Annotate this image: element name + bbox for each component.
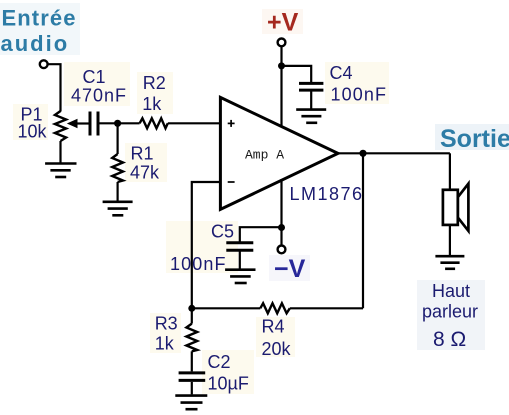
svg-text:C5: C5 xyxy=(211,221,234,241)
svg-text:R3: R3 xyxy=(155,313,178,333)
op-amp - input symbol xyxy=(228,181,235,183)
input terminal J1 xyxy=(40,60,48,68)
capacitor C5 xyxy=(226,243,253,251)
svg-text:100nF: 100nF xyxy=(170,254,227,274)
wire C5 to ground xyxy=(239,252,241,269)
wire P1 bottom to ground xyxy=(59,141,61,163)
potentiometer P1 wiper arrow xyxy=(67,119,89,128)
wire node B down to speaker xyxy=(449,153,451,190)
speaker LS1 xyxy=(443,184,469,231)
wire R3 to C2 xyxy=(191,351,193,371)
potentiometer P1 xyxy=(55,111,66,141)
svg-text:10k: 10k xyxy=(18,122,48,142)
label Entree audio xyxy=(1,6,77,56)
wire node A to R2 xyxy=(118,122,140,124)
wire C2 to ground xyxy=(191,382,193,395)
svg-text:C4: C4 xyxy=(330,63,353,83)
svg-text:20k: 20k xyxy=(262,339,292,359)
svg-text:100nF: 100nF xyxy=(331,85,388,105)
-V terminal xyxy=(278,246,286,254)
node C junction dot xyxy=(188,305,195,312)
resistor R3 xyxy=(186,324,197,352)
svg-text:10µF: 10µF xyxy=(208,374,249,394)
capacitor C4 xyxy=(299,83,323,90)
wire op-amp - input to feedback xyxy=(192,182,221,308)
wire C1 to node A xyxy=(100,122,118,124)
svg-text:audio: audio xyxy=(1,31,70,56)
svg-text:parleur: parleur xyxy=(422,302,478,322)
ground (P1) xyxy=(45,164,76,178)
wire +V down to op-amp top xyxy=(280,47,282,128)
resistor R4 xyxy=(260,303,290,313)
wire +V node to C4 xyxy=(282,66,312,82)
+V terminal xyxy=(278,39,286,47)
resistor R1 xyxy=(112,154,123,182)
wire op-amp -V pin down xyxy=(280,179,282,228)
svg-text:R4: R4 xyxy=(262,316,285,336)
svg-text:C2: C2 xyxy=(208,352,231,372)
svg-text:Sortie: Sortie xyxy=(440,125,509,153)
wire node B down to feedback xyxy=(362,153,364,308)
svg-text:8 Ω: 8 Ω xyxy=(433,328,466,351)
node +V junction dot xyxy=(278,62,285,69)
wire C4 to ground xyxy=(310,91,312,109)
ground (C2) xyxy=(175,396,207,410)
op-amp + input symbol xyxy=(228,120,235,127)
svg-text:470nF: 470nF xyxy=(71,86,127,106)
wire R1 to ground xyxy=(116,182,118,201)
wire op-amp output to node B xyxy=(338,152,450,154)
svg-text:Haut: Haut xyxy=(432,281,470,301)
wire feedback horizontal right segment xyxy=(290,307,363,309)
capacitor C1 xyxy=(90,112,98,136)
node A junction dot xyxy=(114,120,121,127)
svg-text:R2: R2 xyxy=(143,73,166,93)
svg-text:R1: R1 xyxy=(131,143,154,163)
ground (C5) xyxy=(225,270,255,283)
svg-text:1k: 1k xyxy=(142,94,162,114)
op-amp U1 triangle xyxy=(220,97,338,209)
ground (C4) xyxy=(296,110,326,123)
wire node A down to R1 xyxy=(116,123,118,154)
ground (R1) xyxy=(103,202,133,216)
wire -V node to C5 xyxy=(240,227,282,241)
wire speaker to ground xyxy=(449,225,451,255)
capacitor C2 xyxy=(179,373,206,381)
svg-text:Amp A: Amp A xyxy=(245,148,284,163)
svg-text:+V: +V xyxy=(267,9,299,37)
svg-text:Entrée: Entrée xyxy=(2,6,77,31)
node B junction dot xyxy=(359,150,366,157)
wire node C down to R3 xyxy=(191,308,193,323)
svg-text:C1: C1 xyxy=(83,67,106,87)
wire R4 to node C xyxy=(192,307,260,309)
svg-text:LM1876: LM1876 xyxy=(290,184,364,204)
svg-text:1k: 1k xyxy=(155,334,175,354)
wire R2 to op-amp + input xyxy=(168,122,221,124)
ground (speaker) xyxy=(435,256,464,269)
resistor R2 xyxy=(140,118,168,128)
wire input to P1 top xyxy=(48,64,61,111)
svg-text:47k: 47k xyxy=(130,163,160,183)
wire junction to -V terminal xyxy=(280,228,282,246)
svg-text:−V: −V xyxy=(274,255,306,283)
node -V junction dot xyxy=(278,224,285,231)
